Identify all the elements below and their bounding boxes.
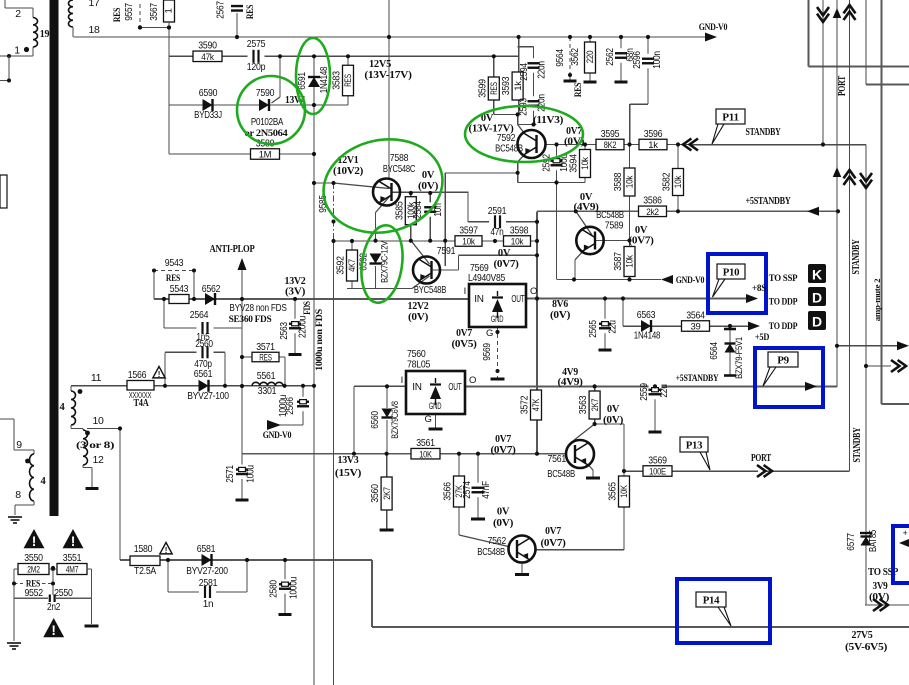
- wire 2580 bottom stub: [284, 591, 286, 613]
- callout P11: [712, 109, 745, 144]
- wire 7561 emitter diag: [588, 465, 593, 471]
- wire 3582 bottom stub: [677, 195, 679, 211]
- svg-text:6577: 6577: [846, 533, 857, 551]
- svg-text:12: 12: [92, 454, 104, 466]
- wire corner x468: [467, 193, 469, 222]
- capacitor 2563 2200u FDS: [279, 301, 312, 340]
- wire 7592 collector line: [546, 144, 690, 146]
- svg-text:P11: P11: [722, 112, 739, 124]
- wire 6560 top stub: [386, 386, 388, 408]
- transistor 7588 BYC548C: [373, 179, 400, 206]
- transistor 7561 BC548B: [566, 440, 594, 468]
- label BYV28 non FDS / SE360 FDS: [229, 303, 288, 325]
- svg-text:2k2: 2k2: [646, 207, 659, 218]
- svg-text:2559: 2559: [639, 383, 650, 401]
- ground 9564: [564, 80, 577, 83]
- node 2567: [235, 35, 239, 39]
- svg-text:T2.5A: T2.5A: [134, 566, 157, 577]
- svg-text:19: 19: [40, 29, 50, 40]
- ground 7561: [586, 477, 600, 480]
- svg-text:+5STANDBY: +5STANDBY: [746, 196, 792, 207]
- svg-text:(13V-17V): (13V-17V): [469, 124, 514, 135]
- svg-text:0V7: 0V7: [566, 126, 582, 137]
- wire 2574 top stub: [477, 454, 479, 486]
- svg-text:3563: 3563: [577, 395, 589, 414]
- svg-text:BYV28 non FDS: BYV28 non FDS: [229, 303, 287, 314]
- wire y424 link: [595, 423, 624, 425]
- svg-text:22u: 22u: [659, 384, 670, 397]
- svg-text:3583: 3583: [331, 71, 343, 90]
- svg-text:13V2: 13V2: [285, 276, 306, 287]
- svg-text:P14: P14: [703, 595, 720, 607]
- wire 7588 emitter down: [375, 213, 377, 241]
- svg-text:!: !: [71, 534, 76, 549]
- capacitor 2580 1000u: [269, 577, 300, 599]
- wire 9569 label and ground: [482, 328, 500, 373]
- wire 13V2 rail left: [154, 298, 469, 300]
- wire +5STANDBY upper line: [537, 210, 838, 212]
- wire 27V5 line upper: [120, 559, 372, 561]
- resistor 3580 1M: [251, 137, 280, 160]
- connector K square: [808, 264, 826, 283]
- label 12V1: [333, 155, 363, 177]
- label 0V (0V) near 2559: [603, 404, 623, 426]
- resistor 3590 47k: [193, 40, 222, 63]
- svg-text:3582: 3582: [661, 172, 673, 191]
- svg-text:8: 8: [15, 489, 21, 501]
- wire 78L05 input vertical: [353, 386, 355, 453]
- svg-text:!: !: [158, 370, 161, 379]
- svg-text:0V: 0V: [497, 507, 510, 518]
- svg-text:+8S: +8S: [752, 284, 766, 294]
- node below pin 1: [0, 54, 11, 83]
- svg-text:10k: 10k: [511, 237, 524, 248]
- wire 6590 line: [169, 104, 348, 106]
- svg-text:10K: 10K: [419, 449, 432, 460]
- svg-text:BC548B: BC548B: [495, 143, 523, 155]
- wire 3592 top stub: [351, 241, 353, 250]
- svg-text:SE360 FDS: SE360 FDS: [229, 315, 272, 325]
- ground 2563: [289, 353, 302, 356]
- resistor 3560 2K7: [369, 477, 393, 510]
- chevron standby left: [683, 139, 698, 151]
- wire 3594 top stub: [584, 145, 586, 150]
- svg-text:PORT: PORT: [751, 453, 771, 464]
- transistor 7589 BC548B: [576, 227, 603, 254]
- svg-text:BZX79C6V8: BZX79C6V8: [390, 401, 401, 439]
- resistor 3587 10k: [612, 247, 636, 277]
- resistor 3551 4M7: [57, 552, 87, 576]
- capacitor 2571 100u: [225, 465, 257, 483]
- svg-text:9543: 9543: [165, 257, 184, 269]
- svg-text:10k: 10k: [625, 255, 636, 268]
- svg-text:3585: 3585: [393, 201, 405, 220]
- wire pin11 supply line: [71, 385, 314, 387]
- label 13V3: [335, 455, 362, 479]
- wire cluster A top: [518, 37, 520, 72]
- wire x624 vertical: [623, 424, 625, 476]
- wire 6560 bottom stub: [386, 420, 388, 454]
- svg-text:RES: RES: [489, 82, 500, 95]
- wire branch y366: [866, 365, 891, 367]
- label 0V7 (0V7) right of 7562: [541, 526, 566, 549]
- wire 7588 base line left: [314, 182, 334, 184]
- svg-text:IN: IN: [412, 382, 421, 393]
- annotation ellipse 7592: [465, 106, 583, 162]
- wire y182 line: [518, 182, 585, 184]
- svg-text:6563: 6563: [637, 309, 656, 321]
- svg-text:9552: 9552: [24, 587, 43, 599]
- svg-text:5561: 5561: [257, 370, 276, 382]
- svg-text:(0V7): (0V7): [491, 445, 516, 456]
- svg-text:47K: 47K: [531, 398, 542, 411]
- svg-text:4M7: 4M7: [66, 565, 79, 576]
- svg-text:BZX79C-12V: BZX79C-12V: [380, 240, 391, 283]
- wire right bus 3: [882, 403, 909, 405]
- svg-text:TO DDP: TO DDP: [769, 298, 798, 308]
- svg-text:220n: 220n: [537, 61, 548, 79]
- capacitor 2559 22u: [639, 383, 670, 401]
- svg-text:BYC548C: BYC548C: [383, 163, 416, 175]
- label 0V (0V7) below 3597: [494, 248, 519, 270]
- ground 2562: [615, 81, 628, 84]
- wire long vertical x314: [313, 56, 315, 685]
- svg-text:BYV27-100: BYV27-100: [187, 390, 229, 402]
- wire x556 vertical: [556, 183, 558, 280]
- svg-text:BC548B: BC548B: [547, 468, 575, 480]
- svg-text:3592: 3592: [335, 256, 347, 275]
- svg-text:3593: 3593: [500, 76, 512, 95]
- svg-text:2560: 2560: [195, 339, 213, 350]
- resistor 3564 39: [682, 309, 710, 332]
- svg-text:0V7: 0V7: [456, 328, 472, 339]
- svg-text:1580: 1580: [134, 543, 153, 555]
- wire 3571 down: [284, 357, 286, 386]
- resistor 3596 1k: [639, 128, 667, 151]
- wire 9564 dashed: [569, 37, 571, 75]
- wire 2565 top stub: [604, 299, 606, 322]
- transformer winding P (pins 2-19-1): [0, 0, 49, 57]
- svg-text:2596: 2596: [632, 51, 643, 69]
- svg-text:10K: 10K: [619, 485, 630, 498]
- ground 78L05: [429, 428, 443, 431]
- diode 6577 BAT85: [846, 529, 879, 552]
- wire long vertical x334: [333, 241, 335, 685]
- svg-text:22u: 22u: [608, 320, 619, 333]
- wire GND-V0 line right: [557, 279, 661, 281]
- capacitor 2560 470p: [194, 339, 213, 370]
- wire 7588 base line right: [392, 191, 469, 193]
- svg-text:BC548B: BC548B: [477, 546, 505, 558]
- svg-text:O: O: [530, 286, 537, 297]
- svg-text:3301: 3301: [258, 385, 277, 397]
- arrow +5standby right: [805, 382, 817, 391]
- svg-text:3595: 3595: [601, 128, 620, 140]
- svg-text:2: 2: [15, 8, 21, 20]
- svg-text:(0V7): (0V7): [629, 236, 654, 247]
- wire STANDBY vertical: [865, 145, 867, 606]
- arrow 8V6 to DDP: [746, 294, 758, 303]
- svg-text:6564: 6564: [709, 342, 720, 360]
- svg-text:P9: P9: [777, 355, 789, 367]
- capacitor 2581 1n: [199, 577, 218, 610]
- svg-text:(0V): (0V): [408, 312, 428, 323]
- wire 2563 bottom stub: [294, 330, 296, 353]
- svg-text:G: G: [486, 328, 493, 339]
- svg-text:(0V): (0V): [418, 181, 438, 192]
- svg-text:2K7: 2K7: [590, 399, 601, 412]
- svg-text:BYV27-200: BYV27-200: [186, 565, 228, 577]
- wire 3588 top stub: [629, 145, 631, 169]
- svg-text:11: 11: [91, 372, 102, 384]
- svg-text:2566: 2566: [285, 397, 296, 415]
- svg-text:7591: 7591: [437, 245, 456, 257]
- svg-text:IN: IN: [474, 294, 483, 305]
- svg-text:1: 1: [14, 45, 20, 57]
- wire 3594 bottom stub: [584, 178, 586, 183]
- label 0V (0V7) right of 7589: [629, 225, 654, 247]
- svg-text:6562: 6562: [202, 283, 221, 295]
- ground 3562: [584, 81, 597, 84]
- wire 78L05 gnd stub: [435, 414, 437, 428]
- wire 27V5 line lower: [372, 626, 909, 628]
- wire x623 corner: [622, 299, 624, 327]
- svg-text:3594: 3594: [568, 154, 580, 173]
- svg-text:(0V7): (0V7): [541, 538, 566, 549]
- svg-text:3588: 3588: [612, 172, 624, 191]
- resistor 3569 100E: [643, 454, 672, 477]
- node 9585 top: [332, 181, 336, 185]
- transformer core bar: [50, 0, 59, 516]
- svg-text:3598: 3598: [510, 224, 529, 236]
- svg-text:220: 220: [585, 51, 596, 64]
- wire 7562 base diag: [459, 535, 509, 547]
- fuse 1566 T4A: [127, 369, 154, 409]
- svg-text:3562: 3562: [570, 48, 581, 66]
- wire 3V9 exit line: [865, 604, 909, 606]
- wire 3583 bottom stub: [347, 96, 349, 105]
- svg-text:+: +: [903, 528, 908, 538]
- svg-text:I: I: [464, 286, 466, 297]
- svg-text:!: !: [51, 623, 56, 638]
- wire 9557 dashed: [139, 4, 141, 28]
- wire PORT line right: [766, 470, 850, 472]
- svg-text:3564: 3564: [686, 309, 705, 321]
- svg-text:10: 10: [92, 415, 104, 427]
- svg-text:10k: 10k: [625, 175, 636, 188]
- svg-text:!: !: [165, 546, 168, 555]
- wire x164 stub: [163, 299, 165, 328]
- svg-text:8V6: 8V6: [552, 299, 568, 310]
- capacitor 2593 220n: [519, 94, 548, 116]
- label 12V2: [408, 301, 429, 323]
- wire 1M line: [169, 153, 314, 155]
- svg-text:(11V3): (11V3): [533, 115, 563, 126]
- wire 3571 line a: [242, 356, 252, 358]
- wire zener bottom line: [347, 288, 412, 290]
- svg-text:L4940V85: L4940V85: [468, 272, 505, 284]
- wire 6592 bottom stub: [375, 266, 377, 289]
- svg-text:BAT85: BAT85: [868, 529, 879, 552]
- callout P9 blue box: [755, 348, 823, 407]
- wire y124 link: [518, 124, 534, 126]
- svg-text:100n: 100n: [652, 51, 663, 69]
- wire 7591 emitter diag: [412, 276, 430, 289]
- svg-text:10k: 10k: [462, 237, 475, 248]
- ground 2574: [471, 518, 485, 521]
- transformer winding pin 11-4: [60, 372, 102, 429]
- wire 2560 snub b: [210, 351, 225, 353]
- wire 2562 top stub: [620, 37, 622, 50]
- svg-text:2571: 2571: [225, 465, 236, 483]
- svg-text:3565: 3565: [607, 482, 619, 501]
- wire 2596 down: [647, 66, 649, 104]
- chevron right 3V9: [873, 599, 888, 611]
- arrow +5standby left: [807, 207, 819, 216]
- svg-text:GND: GND: [429, 401, 442, 412]
- ground 9569: [491, 378, 505, 381]
- wire 2580 top stub: [284, 560, 286, 582]
- callout P9: [763, 352, 798, 386]
- wire 7591 collector diag: [411, 241, 430, 264]
- svg-text:(0V): (0V): [869, 592, 889, 603]
- wire PORT line left: [624, 470, 758, 472]
- warning triangle fuse 1580: [160, 543, 172, 555]
- svg-text:K: K: [812, 267, 822, 283]
- label 3V9 (0V): [869, 581, 889, 603]
- svg-text:ANTI-PLOP: ANTI-PLOP: [210, 244, 255, 255]
- label 0V (0V) near 7588: [418, 170, 438, 192]
- arrow right y345: [897, 341, 909, 350]
- svg-text:+5STANDBY: +5STANDBY: [676, 374, 719, 384]
- zener 6592 BZX79C-12V: [359, 240, 391, 283]
- resistor 3562 220: [570, 42, 596, 73]
- resistor 9557 RES (dashed): [113, 3, 142, 30]
- svg-text:amp-mute 2: amp-mute 2: [872, 279, 882, 322]
- svg-text:STANDBY: STANDBY: [852, 427, 863, 463]
- label 8V6: [550, 299, 570, 321]
- svg-text:(10V2): (10V2): [333, 166, 363, 177]
- capacitor 2564 1n5: [190, 309, 214, 343]
- svg-text:47n: 47n: [490, 227, 503, 238]
- wire 7562 collector line: [535, 549, 624, 551]
- capacitor 2566 1000u: [278, 395, 309, 417]
- wire 3592 bottom stub: [351, 281, 353, 289]
- svg-text:4K7: 4K7: [347, 259, 358, 272]
- svg-text:17: 17: [88, 0, 100, 9]
- wire 2591 line: [468, 221, 537, 223]
- svg-text:(0V7): (0V7): [494, 259, 519, 270]
- annotation circle 7590: [237, 76, 305, 144]
- svg-text:2550: 2550: [54, 587, 73, 599]
- ground 3560: [380, 529, 394, 532]
- svg-text:9569: 9569: [482, 343, 493, 361]
- wire PORT vertical: [849, 0, 851, 471]
- wire 3560 top stub: [386, 454, 388, 477]
- svg-text:3596: 3596: [644, 128, 663, 140]
- resistor 3599 RES: [476, 77, 500, 100]
- resistor 3565 10K: [607, 476, 631, 507]
- svg-text:+5D: +5D: [755, 333, 770, 343]
- wire 3583 top stub: [347, 56, 349, 65]
- svg-text:P10: P10: [723, 267, 740, 279]
- warning triangle bottom: [43, 618, 64, 638]
- wire top feed to 7588: [388, 0, 390, 179]
- svg-text:100u: 100u: [246, 465, 257, 483]
- svg-text:2574: 2574: [462, 481, 473, 499]
- wire 7592 base diag: [518, 125, 525, 134]
- svg-text:0V7: 0V7: [495, 434, 511, 445]
- arrow to DDP lower: [748, 322, 760, 331]
- inductor 5561 3301: [252, 370, 283, 397]
- svg-text:3586: 3586: [643, 195, 662, 207]
- wire 27V5 corner: [371, 560, 373, 627]
- warning triangle fuse 1566: [153, 367, 165, 379]
- diode 6591 1N4148: [297, 66, 330, 93]
- wire 2571 bottom stub: [241, 477, 243, 499]
- svg-text:1n: 1n: [203, 599, 214, 610]
- svg-text:3560: 3560: [369, 484, 381, 503]
- annotation ellipse 7588: [315, 129, 452, 244]
- wire 7588 base diag: [334, 183, 390, 189]
- svg-text:2575: 2575: [247, 38, 266, 50]
- wire 3566 top stub: [458, 454, 460, 476]
- resistor 3595 8K2: [596, 128, 624, 151]
- svg-text:9564: 9564: [555, 49, 566, 67]
- wire 2559 top stub: [654, 386, 656, 388]
- wire 3563 bottom stub: [594, 419, 596, 424]
- transistor 7562 BC548B: [509, 536, 536, 563]
- gnd-v0 arrow middle: [661, 275, 705, 286]
- wire 7561 collector diag: [571, 424, 595, 443]
- connector D square 2: [808, 311, 826, 330]
- wire 9585 dashdot: [333, 183, 335, 241]
- svg-text:3572: 3572: [519, 395, 531, 414]
- label 13V2: [285, 276, 306, 298]
- capacitor 2567: [216, 1, 257, 37]
- wire 2560 snub a: [165, 351, 200, 353]
- wire 7592 emitter down: [517, 162, 519, 183]
- wire 8V6 rail: [526, 298, 748, 300]
- svg-text:PORT: PORT: [837, 76, 848, 96]
- svg-text:2580: 2580: [269, 580, 280, 598]
- wire 3560 bottom stub: [386, 510, 388, 529]
- svg-text:TO DDP: TO DDP: [769, 322, 798, 332]
- wire 2564 line b: [210, 327, 242, 329]
- wire vertical x837: [836, 0, 838, 387]
- wire main 12V5 feed top rail: [74, 36, 706, 38]
- callout P12 partial blue box: [893, 526, 909, 583]
- wire 3599 bottom stub: [493, 100, 495, 115]
- wire vertical x881: [881, 0, 883, 404]
- svg-text:2M2: 2M2: [27, 565, 40, 576]
- fuse 1580 T2.5A: [130, 543, 160, 577]
- svg-text:12V5: 12V5: [369, 58, 392, 70]
- resistor 3583 RES: [331, 65, 355, 96]
- diode 6581 BYV27-200: [186, 543, 228, 577]
- wire 7591 base to x537: [459, 254, 538, 256]
- svg-text:2591: 2591: [488, 205, 507, 217]
- svg-text:3597: 3597: [459, 224, 478, 236]
- label 0V7 (0V): [564, 126, 584, 148]
- svg-text:1k: 1k: [648, 140, 658, 151]
- svg-text:2n2: 2n2: [47, 602, 61, 613]
- wire 2564 line a: [164, 327, 200, 329]
- label 4V9 (4V9): [558, 367, 583, 388]
- svg-text:GND: GND: [491, 314, 504, 325]
- diode 6561 BYV27-100: [187, 368, 229, 402]
- snubber box at left edge: [0, 175, 7, 208]
